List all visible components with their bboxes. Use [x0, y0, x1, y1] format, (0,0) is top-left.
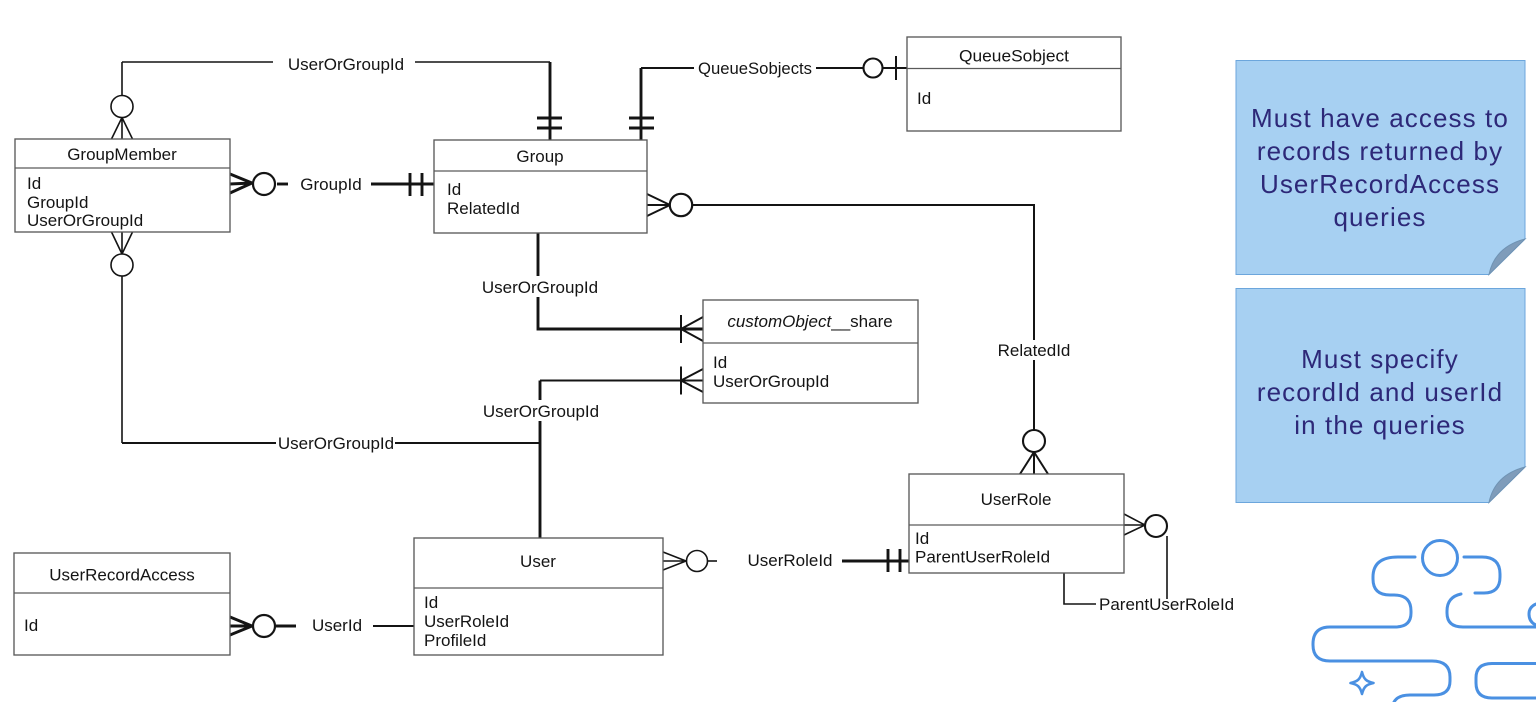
svg-text:User: User: [520, 552, 556, 571]
svg-text:Id: Id: [27, 174, 41, 193]
circle connector (zero) right of UserRole: [1145, 515, 1167, 537]
svg-text:ParentUserRoleId: ParentUserRoleId: [1099, 595, 1234, 614]
wire UserOrGroupId: Group bottom to customObject__share: [538, 233, 703, 329]
crow's foot into GroupMember top: [112, 118, 133, 140]
sparkle star: [1351, 672, 1374, 694]
wire UserId: UserRecordAccess right to User left: [276, 625, 414, 628]
circle connector (zero) right of UserRecordAccess: [253, 615, 275, 637]
svg-text:Must have access to: Must have access to: [1251, 103, 1509, 133]
wire UserRoleId: User right to UserRole left: [708, 560, 909, 562]
svg-text:Id: Id: [24, 616, 38, 635]
svg-text:Must specify: Must specify: [1301, 344, 1459, 374]
svg-text:queries: queries: [1334, 202, 1427, 232]
circle connector (zero) below GroupMember: [111, 254, 133, 276]
svg-text:in the queries: in the queries: [1294, 410, 1466, 440]
mandatory tick before QueueSobject: [895, 56, 897, 80]
entity User: [414, 538, 663, 655]
svg-text:GroupMember: GroupMember: [67, 145, 177, 164]
svg-text:UserOrGroupId: UserOrGroupId: [482, 278, 598, 297]
label RelatedId: [992, 340, 1076, 360]
svg-text:customObject__share: customObject__share: [727, 312, 892, 331]
svg-text:GroupId: GroupId: [27, 193, 88, 212]
crow's foot at GroupMember bottom: [112, 232, 133, 254]
svg-text:ProfileId: ProfileId: [424, 631, 486, 650]
label ParentUserRoleId: [1099, 595, 1234, 614]
crow's foot at Group right: [647, 194, 670, 216]
label UserOrGroupId (Group bottom): [481, 276, 599, 297]
svg-text:QueueSobject: QueueSobject: [959, 47, 1069, 66]
sticky note 1: Must have access to records returned by UserRecordAccess queries: [1236, 61, 1525, 275]
svg-text:UserOrGroupId: UserOrGroupId: [288, 55, 404, 74]
svg-text:GroupId: GroupId: [300, 175, 361, 194]
wire RelatedId: Group right to UserRole top: [692, 205, 1034, 430]
svg-text:UserOrGroupId: UserOrGroupId: [278, 434, 394, 453]
svg-text:UserRoleId: UserRoleId: [747, 551, 832, 570]
crow's foot at User right: [663, 552, 686, 570]
label GroupId: [300, 175, 361, 194]
wire QueueSobjects: Group top to QueueSobject: [641, 68, 907, 140]
wire ParentUserRoleId: UserRole self-reference loop: [1064, 536, 1167, 604]
svg-text:UserRole: UserRole: [981, 490, 1052, 509]
svg-text:UserOrGroupId: UserOrGroupId: [27, 211, 143, 230]
wire UserOrGroupId: GroupMember bottom to User vertical: [122, 276, 540, 443]
svg-text:UserRoleId: UserRoleId: [424, 612, 509, 631]
svg-text:Group: Group: [516, 147, 563, 166]
label UserOrGroupId (lower left): [276, 434, 395, 454]
svg-text:records returned by: records returned by: [1257, 136, 1503, 166]
circle connector (zero) right of GroupMember: [253, 173, 275, 195]
label UserRoleId: [747, 551, 832, 570]
svg-text:ParentUserRoleId: ParentUserRoleId: [915, 548, 1050, 567]
circle connector (zero) right of Group: [670, 194, 692, 216]
mandatory tick + crow's foot into customObject__share (upper): [681, 315, 703, 343]
mandatory-one ticks left of UserRole: [888, 549, 900, 572]
svg-text:UserRecordAccess: UserRecordAccess: [1260, 169, 1500, 199]
svg-text:UserOrGroupId: UserOrGroupId: [483, 402, 599, 421]
svg-text:RelatedId: RelatedId: [447, 199, 520, 218]
wire GroupId: GroupMember right to Group left: [277, 183, 434, 186]
svg-text:Id: Id: [917, 89, 931, 108]
crow's foot at UserRecordAccess right: [230, 617, 252, 635]
svg-text:Id: Id: [424, 593, 438, 612]
svg-text:Id: Id: [447, 180, 461, 199]
entity QueueSobject: [907, 37, 1121, 131]
circle connector (zero) before QueueSobject: [864, 59, 883, 78]
svg-text:QueueSobjects: QueueSobjects: [698, 59, 812, 78]
wire UserOrGroupId: User top to customObject__share: [540, 381, 703, 539]
entity Group: [434, 140, 647, 233]
circle connector (zero) above GroupMember: [111, 96, 133, 118]
entity UserRole: [909, 474, 1124, 573]
svg-text:recordId and userId: recordId and userId: [1257, 377, 1503, 407]
sticky note 2: Must specify recordId and userId in the queries: [1236, 289, 1525, 503]
svg-text:UserId: UserId: [312, 616, 362, 635]
label UserOrGroupId (top): [288, 55, 404, 74]
label QueueSobjects: [698, 59, 812, 78]
svg-text:RelatedId: RelatedId: [998, 341, 1071, 360]
mandatory-one ticks left of Group: [410, 173, 422, 196]
decorative cloud doodle bottom right: [1313, 541, 1536, 702]
entity customObject__share: [703, 300, 918, 403]
mandatory-one ticks above Group (right): [629, 118, 654, 128]
wire UserOrGroupId: GroupMember top to Group top: [122, 62, 550, 140]
mandatory tick + crow's foot into customObject__share (lower): [681, 367, 703, 395]
svg-text:Id: Id: [915, 529, 929, 548]
entity UserRecordAccess: [14, 553, 230, 655]
label UserId: [312, 616, 362, 635]
circle connector (zero) above UserRole: [1023, 430, 1045, 452]
mandatory-one ticks above Group (left): [537, 118, 562, 128]
crow's foot into UserRole top: [1020, 452, 1048, 474]
svg-text:Id: Id: [713, 353, 727, 372]
entity GroupMember: [15, 139, 230, 232]
circle connector (zero) right of User: [687, 551, 708, 572]
crow's foot at UserRole right: [1124, 514, 1145, 535]
crow's foot at GroupMember right: [230, 174, 252, 193]
svg-text:UserOrGroupId: UserOrGroupId: [713, 372, 829, 391]
label UserOrGroupId (User top): [482, 400, 600, 421]
svg-text:UserRecordAccess: UserRecordAccess: [49, 566, 195, 585]
